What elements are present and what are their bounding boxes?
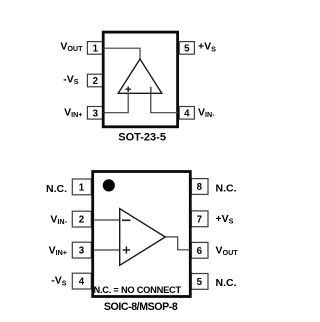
svg-text:2: 2 bbox=[93, 76, 98, 87]
wire op-amp output to pin6 bbox=[165, 237, 190, 250]
pin 1 box bbox=[87, 42, 102, 55]
wire pin2 to - input bbox=[94, 219, 119, 221]
wire pin3 to + input bbox=[94, 249, 119, 251]
wire pin3 to + input bbox=[103, 93, 128, 112]
svg-text:N.C. = NO CONNECT: N.C. = NO CONNECT bbox=[94, 285, 182, 295]
pin 5 box bbox=[191, 274, 208, 290]
pin 3 box bbox=[87, 107, 102, 120]
svg-text:5: 5 bbox=[184, 43, 190, 54]
- input marker (rotated) bbox=[150, 87, 152, 94]
svg-text:5: 5 bbox=[197, 277, 203, 288]
svg-text:7: 7 bbox=[197, 214, 202, 225]
svg-text:N.C.: N.C. bbox=[216, 183, 237, 195]
svg-text:SOT-23-5: SOT-23-5 bbox=[118, 131, 166, 143]
pin 4 box bbox=[72, 273, 91, 289]
svg-text:3: 3 bbox=[93, 108, 99, 119]
pin 8 box bbox=[191, 179, 208, 195]
svg-text:2: 2 bbox=[79, 215, 84, 226]
pin 2 box bbox=[87, 74, 102, 87]
svg-text:4: 4 bbox=[184, 108, 190, 119]
pin 1 box bbox=[72, 179, 91, 195]
pin 1 dot marker bbox=[103, 179, 115, 191]
op-amp U1 triangle (pointing up) bbox=[118, 59, 162, 93]
svg-text:4: 4 bbox=[79, 277, 85, 288]
svg-text:N.C.: N.C. bbox=[46, 183, 67, 195]
wire pin1 to op-amp output bbox=[103, 48, 140, 59]
pin 6 box bbox=[191, 242, 208, 258]
svg-text:3: 3 bbox=[79, 246, 85, 257]
pin 7 box bbox=[191, 211, 208, 227]
pin 4 box bbox=[179, 107, 194, 120]
svg-text:1: 1 bbox=[79, 182, 85, 193]
svg-text:6: 6 bbox=[197, 246, 203, 257]
- input marker bbox=[122, 219, 130, 221]
pin 5 box bbox=[179, 42, 194, 55]
pin 3 box bbox=[72, 242, 91, 258]
IC body SOIC-8/MSOP-8 bbox=[93, 172, 191, 297]
pin 2 box bbox=[72, 211, 91, 227]
wire pin4 to - input bbox=[151, 93, 179, 112]
IC body SOT-23-5 bbox=[103, 32, 177, 127]
svg-text:1: 1 bbox=[93, 43, 99, 54]
svg-text:N.C.: N.C. bbox=[216, 277, 237, 289]
+ input marker bbox=[123, 246, 130, 253]
svg-text:8: 8 bbox=[197, 182, 203, 193]
op-amp U2 triangle (pointing right) bbox=[120, 209, 166, 266]
svg-text:SOIC-8/MSOP-8: SOIC-8/MSOP-8 bbox=[104, 301, 178, 313]
+ input marker bbox=[125, 86, 131, 92]
